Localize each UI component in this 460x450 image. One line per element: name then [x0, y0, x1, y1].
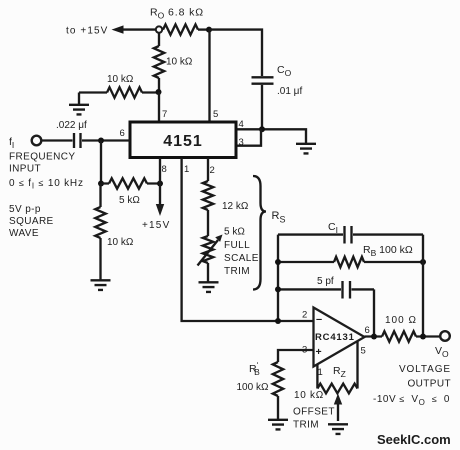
- svg-text:8: 8: [162, 164, 167, 175]
- svg-text:RʹB: RʹB: [249, 361, 260, 377]
- svg-text:SeekIC.com: SeekIC.com: [377, 432, 451, 447]
- wire: pin 8: [159, 158, 161, 184]
- svg-text:SCALE: SCALE: [224, 253, 259, 264]
- resistor 5 kohm: [101, 178, 160, 206]
- power: +15V arrow at pin 8: [142, 184, 170, 232]
- junction: output node: [371, 334, 377, 340]
- svg-text:to +15V: to +15V: [66, 26, 108, 37]
- capacitor C_O .01uf: [252, 64, 303, 97]
- wire: summing node vertical: [277, 235, 279, 321]
- svg-text:RC4131: RC4131: [315, 332, 355, 343]
- junction: R_O right node: [206, 27, 212, 33]
- svg-text:WAVE: WAVE: [9, 228, 39, 239]
- ground: offset trim wiper: [328, 424, 348, 434]
- svg-text:4151: 4151: [163, 133, 203, 150]
- svg-text:5 kΩ: 5 kΩ: [119, 195, 140, 206]
- wire: 5pf right vertical: [373, 289, 375, 336]
- svg-text:100 kΩ: 100 kΩ: [237, 382, 269, 393]
- node: open circle at R_O left: [156, 26, 162, 32]
- resistor 10 kohm horizontal (to ground): [79, 74, 158, 98]
- op-amp U2 RC4131: [314, 308, 365, 367]
- input terminal f_I: [32, 136, 42, 146]
- svg-text:3: 3: [239, 137, 244, 148]
- svg-text:+15V: +15V: [142, 220, 170, 231]
- wire: pin 5: [208, 30, 210, 122]
- svg-text:100 Ω: 100 Ω: [385, 315, 417, 326]
- resistor R_Bp 100 kohm: [237, 361, 284, 396]
- resistor 10 kohm vertical (to pin 7 rail): [154, 33, 193, 92]
- junction: pin7 node: [156, 89, 162, 95]
- junction: input node: [98, 138, 104, 144]
- svg-text:RS: RS: [272, 210, 286, 225]
- svg-text:7: 7: [162, 109, 167, 120]
- junction: R_B left: [275, 259, 281, 265]
- svg-text:FREQUENCY: FREQUENCY: [9, 152, 75, 163]
- ground: at pins 3/4: [296, 144, 316, 154]
- svg-text:TRIM: TRIM: [224, 266, 250, 277]
- svg-text:+: +: [316, 346, 322, 358]
- svg-text:.022 μf: .022 μf: [56, 120, 87, 131]
- svg-text:VOLTAGE: VOLTAGE: [399, 364, 451, 375]
- wire: pin 4 of 4151 to ground: [236, 129, 306, 143]
- wire: ground stub top-left: [78, 93, 80, 105]
- capacitor .022 uf: [56, 120, 87, 148]
- potentiometer 5 kohm FULL SCALE TRIM: [198, 227, 259, 278]
- wire: op-amp pin 5 down: [356, 342, 358, 389]
- junction: pin4/CO node: [259, 126, 265, 132]
- svg-text:10 kΩ: 10 kΩ: [166, 57, 193, 68]
- svg-text:5: 5: [361, 346, 366, 357]
- svg-text:VO: VO: [435, 345, 449, 359]
- resistor R_O 6.8 kohm: [150, 7, 209, 35]
- wire: between 12k and trim pot: [207, 210, 209, 236]
- svg-text:INPUT: INPUT: [9, 164, 41, 175]
- svg-text:10 kΩ: 10 kΩ: [107, 237, 134, 248]
- ground: input divider: [91, 280, 111, 290]
- svg-text:CI: CI: [328, 221, 338, 235]
- wire: +15V rail arrow to the left: [112, 25, 157, 33]
- svg-text:5V p-p: 5V p-p: [9, 204, 41, 215]
- wire: 4151 pin 1 to op-amp inverting input: [182, 158, 314, 321]
- svg-text:RB 100 kΩ: RB 100 kΩ: [363, 244, 413, 258]
- svg-text:TRIM: TRIM: [293, 420, 319, 431]
- wire: cap to pin 6: [82, 139, 130, 141]
- svg-text:OFFSET: OFFSET: [293, 407, 335, 418]
- svg-text:.01 μf: .01 μf: [277, 86, 302, 97]
- svg-text:6: 6: [365, 325, 370, 336]
- svg-text:–: –: [316, 314, 322, 326]
- junction: pin8 node: [157, 181, 163, 187]
- svg-text:0 ≤ fI ≤ 10 kHz: 0 ≤ fI ≤ 10 kHz: [9, 178, 84, 191]
- svg-text:1: 1: [184, 164, 189, 175]
- svg-text:fI: fI: [9, 136, 14, 150]
- resistor 100 ohm: [382, 315, 440, 342]
- svg-text:5 kΩ: 5 kΩ: [224, 227, 245, 238]
- junction: 5pf left: [275, 286, 281, 292]
- svg-text:FULL: FULL: [224, 240, 250, 251]
- wire: op-amp pin 1 down: [316, 365, 318, 389]
- wire: input to coupling cap: [42, 139, 73, 141]
- resistor 10 kohm (input divider): [95, 184, 134, 281]
- wire: pin 2 of 4151: [207, 158, 209, 181]
- junction: R_B right: [420, 259, 426, 265]
- svg-text:5: 5: [213, 109, 218, 120]
- svg-text:OUTPUT: OUTPUT: [407, 379, 451, 390]
- wire: pot to ground: [207, 263, 209, 282]
- wire: input node down: [100, 141, 102, 184]
- svg-text:10 kΩ: 10 kΩ: [107, 74, 134, 85]
- svg-text:12 kΩ: 12 kΩ: [222, 201, 249, 212]
- svg-text:5 pf: 5 pf: [317, 276, 334, 287]
- svg-text:6: 6: [120, 128, 125, 139]
- resistor R_B 100 kohm: [278, 244, 423, 267]
- ground: top-left: [69, 105, 89, 115]
- svg-text:10 kΩ: 10 kΩ: [294, 390, 324, 401]
- ground: R_Bp: [268, 420, 288, 430]
- wire: R_Bp to ground: [277, 396, 279, 420]
- svg-text:-10V ≤ VO ≤ 0: -10V ≤ VO ≤ 0: [373, 394, 450, 407]
- svg-text:SQUARE: SQUARE: [9, 216, 54, 227]
- svg-text:4: 4: [239, 119, 244, 130]
- wire: C_O bottom to pin4 node: [261, 85, 263, 129]
- wire: op-amp pin 3 to R_Bp: [278, 350, 314, 362]
- wire: op-amp output: [365, 335, 383, 337]
- wire: top rail to C_O branch: [209, 30, 262, 76]
- wire: pin 3 of 4151 up to pin4 node: [236, 129, 261, 145]
- potentiometer R_Z 10 kohm OFFSET TRIM: [293, 365, 358, 431]
- svg-text:2: 2: [210, 165, 215, 176]
- brace R_S: [253, 176, 285, 290]
- ground: full scale trim: [199, 282, 219, 292]
- terminal V_O: [440, 331, 450, 341]
- wire: pin 7: [158, 92, 160, 122]
- capacitor 5 pf: [278, 276, 374, 299]
- junction: divider node: [98, 181, 104, 187]
- IC U1 4151: [130, 122, 236, 158]
- capacitor C_I: [278, 221, 423, 244]
- junction: inverting input node: [275, 318, 281, 324]
- svg-text:RZ: RZ: [333, 365, 346, 379]
- svg-text:2: 2: [302, 310, 307, 321]
- junction: after 100 ohm: [420, 334, 426, 340]
- wire: right feedback vertical: [422, 235, 424, 337]
- svg-text:CO: CO: [277, 64, 292, 78]
- svg-text:RO 6.8 kΩ: RO 6.8 kΩ: [150, 7, 204, 21]
- resistor 12 kohm: [203, 181, 249, 212]
